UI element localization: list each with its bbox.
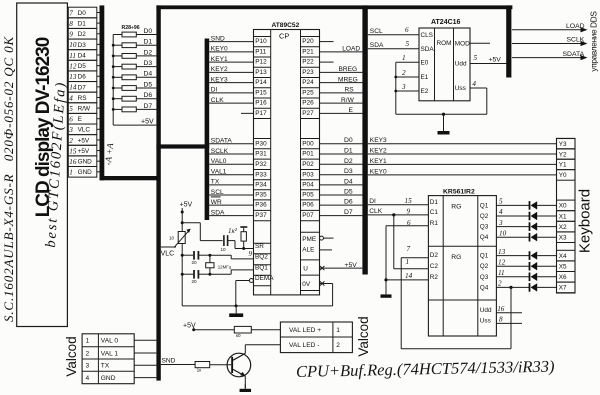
U1 pin P13 cell <box>254 66 271 68</box>
svg-text:P20: P20 <box>302 38 314 45</box>
keyboard pin X6 cell <box>557 272 576 283</box>
svg-text:11: 11 <box>69 52 76 60</box>
wire SDA (bus to P37) <box>209 215 253 217</box>
U1 pin P21 cell <box>301 46 320 48</box>
wire P17 stub <box>241 112 254 114</box>
svg-text:8: 8 <box>69 20 73 28</box>
svg-text:D5: D5 <box>344 189 353 196</box>
svg-text:20: 20 <box>192 279 198 284</box>
svg-text:Udd: Udd <box>480 307 492 314</box>
wire (DDS interface vertical bus) <box>506 5 511 77</box>
wire E2 pin 3 <box>396 90 419 92</box>
svg-text:S.C.1602AULB-X4-GS-R 020Ф-05: S.C.1602AULB-X4-GS-R 020Ф-056-02 QC 0K <box>1 36 16 322</box>
svg-text:D3: D3 <box>78 42 87 49</box>
U1 pin U (Vcc) cell <box>301 259 320 261</box>
wire E (P27 to bus) <box>320 112 363 114</box>
diode VD5 (Q1 to X4) <box>496 255 529 257</box>
svg-text:GND: GND <box>101 375 116 382</box>
svg-text:AT89C52: AT89C52 <box>272 22 300 29</box>
wire D2 pin 7 feedback from Q4 <box>401 257 428 259</box>
junction on pull-up rail row 3 <box>112 65 115 68</box>
diode VD7 (Q3 to X6) <box>496 276 529 278</box>
LCD pin 1 (GND) cell <box>68 167 97 178</box>
wire DI (bus to U3 D1) pin 15 <box>368 204 429 206</box>
svg-text:KEY0: KEY0 <box>211 46 228 53</box>
resistor R26 (pull-up D5) <box>113 87 122 89</box>
svg-text:16: 16 <box>497 305 505 313</box>
svg-text:P35: P35 <box>255 192 267 199</box>
svg-text:SDA: SDA <box>370 42 384 49</box>
svg-text:LOAD: LOAD <box>342 46 360 53</box>
svg-text:P07: P07 <box>302 212 314 219</box>
keyboard pin X0 cell <box>557 200 576 211</box>
svg-text:D5: D5 <box>144 81 153 88</box>
svg-text:D7: D7 <box>144 103 153 110</box>
wire E0-E1-E2 ground rail <box>395 62 397 114</box>
wire SCLK (bus to P31) <box>209 153 253 155</box>
svg-text:Valcod: Valcod <box>356 316 371 356</box>
svg-text:D1: D1 <box>144 39 153 46</box>
svg-text:P17: P17 <box>255 110 267 117</box>
svg-text:D0: D0 <box>78 10 87 17</box>
svg-text:1: 1 <box>406 258 410 266</box>
wire resistor network common rail <box>112 35 114 126</box>
svg-text:D6: D6 <box>78 74 87 81</box>
svg-text:P10: P10 <box>255 38 267 45</box>
svg-text:0V: 0V <box>302 281 311 288</box>
svg-text:12: 12 <box>498 258 506 266</box>
diode VD3 (Q3 to X2) <box>496 226 529 228</box>
svg-text:Y3: Y3 <box>559 141 567 148</box>
keyboard pin X7 cell <box>557 282 576 293</box>
svg-text:GND: GND <box>78 159 93 166</box>
svg-text:KEY1: KEY1 <box>370 158 387 165</box>
svg-text:P30: P30 <box>255 140 267 147</box>
svg-text:SR: SR <box>255 243 264 250</box>
svg-text:D2: D2 <box>78 31 87 38</box>
U1 pin P30 cell <box>254 138 271 140</box>
svg-text:D1: D1 <box>430 199 439 206</box>
svg-text:9: 9 <box>69 31 73 39</box>
reset wire from +5V rail to RC <box>182 222 200 224</box>
svg-text:7: 7 <box>407 245 411 253</box>
U1 pin P10 cell <box>254 36 271 38</box>
svg-text:P31: P31 <box>255 151 267 158</box>
svg-text:VAL 1: VAL 1 <box>101 350 119 357</box>
wire D2 (P02 to bus) <box>320 163 363 165</box>
U1 pin P37 cell <box>254 209 271 211</box>
svg-text:CLK: CLK <box>369 208 382 215</box>
U1 pin P16 cell <box>254 97 271 99</box>
junction on pull-up rail row 2 <box>112 55 115 58</box>
keyboard pin X1 cell <box>557 211 576 222</box>
wire D6 (P06 to bus) <box>320 204 363 206</box>
svg-text:6: 6 <box>69 116 73 124</box>
U1 pin P23 cell <box>301 66 320 68</box>
svg-text:D0: D0 <box>344 137 353 144</box>
svg-text:Y1: Y1 <box>559 162 567 169</box>
svg-text:2: 2 <box>336 342 340 349</box>
svg-text:P06: P06 <box>302 202 314 209</box>
U1 pin P33 cell <box>254 169 271 171</box>
wire R1 pin 6 to ground rail <box>386 225 428 227</box>
svg-text:к0: к0 <box>236 333 241 338</box>
svg-text:P03: P03 <box>302 171 314 178</box>
svg-text:TX: TX <box>211 179 220 186</box>
svg-text:KR561IR2: KR561IR2 <box>443 189 475 196</box>
wire SDA (bus to U2 SDA) pin 5 <box>368 48 419 50</box>
svg-text:10: 10 <box>499 229 507 237</box>
U1 pin P04 cell <box>301 179 320 181</box>
wire MREG (P24 to bus) <box>320 82 363 84</box>
svg-text:VAL LED +: VAL LED + <box>289 327 321 334</box>
wire D7 (P07 to bus) <box>320 215 363 217</box>
svg-text:4: 4 <box>472 80 476 88</box>
wire emitter to ground <box>244 376 246 389</box>
svg-text:Q3: Q3 <box>480 274 489 281</box>
svg-text:BREG: BREG <box>339 66 358 73</box>
svg-text:P02: P02 <box>302 161 314 168</box>
svg-text:P11: P11 <box>255 48 266 55</box>
svg-text:D6: D6 <box>144 92 153 99</box>
svg-text:2: 2 <box>86 350 90 357</box>
svg-text:E2: E2 <box>421 88 429 95</box>
wire P20 stub <box>320 41 334 43</box>
svg-text:5: 5 <box>406 40 410 48</box>
svg-text:SND: SND <box>162 358 176 365</box>
wire (central +5V vertical bus) <box>362 5 367 274</box>
resistor R21 (pull-up D0) <box>113 34 122 36</box>
svg-text:Uss: Uss <box>455 85 466 92</box>
junction CLK to C2 <box>392 213 395 216</box>
svg-text:D4: D4 <box>344 178 353 185</box>
svg-text:R2: R2 <box>430 274 439 281</box>
junction on pull-up rail row 6 <box>112 97 115 100</box>
wire U (Vcc) to +5V bus <box>320 267 363 269</box>
wire CLK (bus to P16) <box>209 102 253 104</box>
svg-text:3: 3 <box>86 363 90 370</box>
resistor R base <box>195 362 210 368</box>
potentiometer R VLC (contrast trimmer) <box>178 232 185 244</box>
svg-text:1: 1 <box>336 327 340 334</box>
U1 pin P32 cell <box>254 158 271 160</box>
svg-text:D7: D7 <box>344 209 353 216</box>
U1 pin P03 cell <box>301 169 320 171</box>
junction on pull-up rail row 5 <box>112 87 115 90</box>
svg-text:KEY2: KEY2 <box>211 66 228 73</box>
svg-text:E: E <box>78 116 82 123</box>
svg-text:P22: P22 <box>302 59 314 66</box>
LCD pin 9 (D2) cell <box>68 28 97 39</box>
wire E0 pin 1 <box>396 61 419 63</box>
resistor R reset 1k <box>241 232 246 241</box>
svg-text:P26: P26 <box>302 100 314 107</box>
wire Valcod pin 1 to bus <box>134 339 156 341</box>
wire 0V to ground rail <box>320 283 333 285</box>
svg-text:Q2: Q2 <box>480 213 489 220</box>
svg-text:P37: P37 <box>255 212 267 219</box>
LCD display module DV-16230 outline <box>17 3 68 327</box>
LCD pin 3 (VLC) cell <box>68 124 97 135</box>
ground (CPU 0V / DEMA) <box>235 306 237 314</box>
svg-text:10: 10 <box>221 247 227 252</box>
svg-text:2: 2 <box>498 280 502 288</box>
wire SDATA to DDS (arrow) <box>512 57 583 59</box>
svg-text:D6: D6 <box>344 199 353 206</box>
svg-text:D7: D7 <box>78 84 87 91</box>
U1 pin BQ1 cell <box>254 264 271 266</box>
U1 pin P20 cell <box>301 36 320 38</box>
svg-text:9: 9 <box>407 207 411 215</box>
U1 pin P00 cell <box>301 138 320 140</box>
wire LOAD to DDS (arrow) <box>512 29 583 31</box>
wire base resistor to transistor <box>210 364 232 366</box>
U1 pin P01 cell <box>301 148 320 150</box>
microcontroller U1 AT89C52 outline <box>254 30 320 295</box>
wire SCL (bus to U2 CLS) pin 6 <box>368 34 419 36</box>
wire U2 MOD stub <box>470 42 490 44</box>
svg-text:16: 16 <box>69 158 77 166</box>
svg-text:13: 13 <box>69 73 77 81</box>
wire LCD pin 5 to GND bus <box>97 107 100 109</box>
svg-text:управление DDS: управление DDS <box>590 11 599 72</box>
keyboard pin Y1 cell <box>557 159 576 170</box>
svg-text:P14: P14 <box>255 79 267 86</box>
wire D3 (P03 to bus) <box>320 174 363 176</box>
wire LCD pin 13 to GND bus <box>97 75 100 77</box>
diode VD2 (Q2 to X1) <box>496 215 529 217</box>
svg-text:3: 3 <box>68 126 73 134</box>
svg-text:KEY2: KEY2 <box>370 148 387 155</box>
svg-text:P01: P01 <box>302 151 314 158</box>
wire U2 Udd pin 5 to +5V (DDS bus) <box>470 63 507 65</box>
keyboard connector outline <box>557 139 576 294</box>
+5V tap (reset resistor) <box>240 226 247 228</box>
svg-text:D3: D3 <box>344 168 353 175</box>
junction Q4 section2 feedback <box>509 286 512 289</box>
svg-text:C1: C1 <box>430 209 439 216</box>
svg-text:5: 5 <box>499 198 503 206</box>
svg-text:RS: RS <box>345 87 355 94</box>
wire KEY2 (bus to P13) <box>209 71 253 73</box>
wire TX (bus to P34) <box>209 184 253 186</box>
svg-text:BQ2: BQ2 <box>255 253 268 260</box>
svg-text:9: 9 <box>249 250 253 258</box>
svg-text:Q1: Q1 <box>480 253 489 260</box>
svg-text:Q4: Q4 <box>480 234 489 241</box>
svg-text:E: E <box>349 107 354 114</box>
wire SND (bus to base resistor) <box>161 364 195 366</box>
U1 pin P22 cell <box>301 56 320 58</box>
LCD pin 7 (D0) cell <box>68 7 97 18</box>
svg-text:Y0: Y0 <box>559 172 567 179</box>
U1 pin P15 cell <box>254 87 271 89</box>
wire SCL (bus to P35) <box>209 194 253 196</box>
capacitor C1 20 (crystal) <box>193 251 195 260</box>
svg-text:D1: D1 <box>344 148 353 155</box>
U1 pin P34 cell <box>254 179 271 181</box>
U1 pin DEMA circle and wire <box>249 279 253 283</box>
svg-text:10: 10 <box>169 236 175 241</box>
keyboard pin X2 cell <box>557 221 576 232</box>
wire E1 pin 2 <box>396 76 419 78</box>
svg-text:4: 4 <box>86 375 90 382</box>
svg-text:X7: X7 <box>559 285 567 292</box>
ground (U2) <box>442 113 445 116</box>
svg-text:KEY3: KEY3 <box>211 76 228 83</box>
LCD pin 8 (D1) cell <box>68 18 97 29</box>
resistor R23 (pull-up D2) <box>113 55 122 57</box>
wire SDATA (bus to P30) <box>209 143 253 145</box>
U1 pin P36 cell <box>254 199 271 201</box>
svg-text:SDATA: SDATA <box>563 51 585 58</box>
svg-text:D5: D5 <box>78 63 87 70</box>
wire KEY0 (bus to keyboard Y0) <box>368 174 557 176</box>
svg-text:AT24C16: AT24C16 <box>431 19 461 26</box>
wire KEY1 (bus to keyboard Y1) <box>368 163 557 165</box>
ground (transistor emitter) <box>244 384 246 389</box>
svg-text:Q1: Q1 <box>480 202 489 209</box>
U1 pin P11 cell <box>254 46 271 48</box>
wire Valcod pin 2 to bus <box>134 352 156 354</box>
U1 pin P14 cell <box>254 77 271 79</box>
VAL LED connector outline <box>280 322 352 353</box>
svg-text:P13: P13 <box>255 69 267 76</box>
svg-text:RS: RS <box>78 95 87 102</box>
svg-text:SCLK: SCLK <box>211 148 229 155</box>
svg-text:5: 5 <box>474 54 478 62</box>
Valcod connector outline <box>82 334 134 384</box>
svg-text:P23: P23 <box>302 69 314 76</box>
wire LCD pin 15 to GND bus <box>97 150 100 152</box>
svg-text:D2: D2 <box>144 49 153 56</box>
svg-text:P36: P36 <box>255 202 267 209</box>
wire BREG (P23 to bus) <box>320 71 363 73</box>
junction on pull-up rail row 1 <box>112 44 115 47</box>
svg-text:+5V: +5V <box>78 148 90 155</box>
svg-text:14: 14 <box>405 272 413 280</box>
LCD pin 4 (RS) cell <box>68 92 97 103</box>
svg-text:P24: P24 <box>302 79 314 86</box>
LCD pin 6 (E) cell <box>68 113 97 124</box>
keyboard pin X5 cell <box>557 261 576 272</box>
wire +5V to LED resistor <box>192 328 195 331</box>
shift register U3 KR561IR2 outline <box>428 196 496 336</box>
wire KEY0 (bus to P11) <box>209 51 253 53</box>
U1 pin P12 cell <box>254 56 271 58</box>
svg-text:Q2: Q2 <box>480 263 489 270</box>
svg-text:2: 2 <box>69 137 73 145</box>
wire (CPU port bus bar) <box>205 39 210 221</box>
wire U3 Udd stub pin 16 <box>496 312 522 314</box>
diode VD6 (Q2 to X5) <box>496 265 529 267</box>
svg-text:VLC: VLC <box>161 250 175 257</box>
resistor R27 (pull-up D6) <box>113 98 122 100</box>
svg-text:P33: P33 <box>255 171 267 178</box>
wire LED resistor to VAL LED + <box>251 329 280 331</box>
svg-text:VLC: VLC <box>78 127 91 134</box>
svg-text:VAL LED -: VAL LED - <box>289 342 319 349</box>
wire LCD pin 10 to GND bus <box>97 43 100 45</box>
svg-text:13: 13 <box>498 248 506 256</box>
svg-text:+5V: +5V <box>78 137 90 144</box>
svg-text:D4: D4 <box>144 71 153 78</box>
wire WR (bus to P36) <box>209 204 253 206</box>
U1 pin PME/ALE cell <box>301 231 320 233</box>
resistor R24 (pull-up D3) <box>113 66 122 68</box>
wire (main left vertical bus) <box>156 5 160 380</box>
U1 pin P35 cell <box>254 189 271 191</box>
svg-text:P15: P15 <box>255 89 267 96</box>
svg-text:P27: P27 <box>302 110 314 117</box>
wire crystal row BQ1 <box>182 273 193 275</box>
diode VD8 (Q4 to X7) <box>496 286 529 288</box>
U1 pin P06 cell <box>301 199 320 201</box>
wire Valcod pin 3 to bus <box>134 364 156 366</box>
wire LCD pin 1 to GND bus <box>97 171 100 173</box>
svg-text:X1: X1 <box>559 213 567 220</box>
svg-text:DI: DI <box>211 87 218 94</box>
wire LCD pin 2 to GND bus <box>97 139 100 141</box>
U1 pin P25 cell <box>301 87 320 89</box>
svg-text:X4: X4 <box>559 253 567 260</box>
wire C2 pin 1 <box>394 268 429 270</box>
svg-text:SCLK: SCLK <box>567 37 585 44</box>
svg-text:3: 3 <box>498 219 503 227</box>
svg-text:Keyboard: Keyboard <box>577 189 594 253</box>
svg-text:D4: D4 <box>78 52 87 59</box>
svg-text:11: 11 <box>498 269 505 277</box>
svg-text:20: 20 <box>192 260 198 265</box>
svg-text:ROM: ROM <box>437 40 452 47</box>
svg-text:X2: X2 <box>559 224 567 231</box>
wire RS (P25 to bus) <box>320 92 363 94</box>
svg-text:BQ1: BQ1 <box>255 264 268 271</box>
wire LCD pin 11 to GND bus <box>97 54 100 56</box>
svg-text:ALE: ALE <box>302 247 314 254</box>
wire +5V rail down to ground rail <box>181 208 183 232</box>
wire R/W (P26 to bus) <box>320 102 363 104</box>
svg-text:P32: P32 <box>255 161 267 168</box>
capacitor C2 20 (crystal) <box>193 270 195 279</box>
svg-text:1: 1 <box>402 54 406 62</box>
Valcod pin 2 (VAL 1) cell <box>82 346 134 348</box>
crystal BQ 12MHz <box>209 255 211 263</box>
wire DI (bus to P15) <box>209 92 253 94</box>
wire R2 pin 14 <box>384 278 387 281</box>
svg-text:R28÷96: R28÷96 <box>122 25 140 31</box>
svg-text:D0: D0 <box>144 28 153 35</box>
U1 pin P07 cell <box>301 209 320 211</box>
svg-text:1: 1 <box>69 169 73 177</box>
svg-text:SDATA: SDATA <box>211 138 233 145</box>
svg-text:CLS: CLS <box>421 32 433 39</box>
svg-text:VAL1: VAL1 <box>211 169 227 176</box>
svg-text:Q3: Q3 <box>480 224 489 231</box>
U1 pin P27 cell <box>301 107 320 109</box>
resistor R28 (pull-up D7) <box>113 108 122 110</box>
resistor R25 (pull-up D4) <box>113 76 122 78</box>
wire LCD pin 8 to GND bus <box>97 22 100 24</box>
svg-text:E1: E1 <box>421 74 429 81</box>
wire KEY2 (bus to keyboard Y2) <box>368 153 557 155</box>
wire Valcod pin 4 to bus <box>134 377 156 379</box>
svg-text:P12: P12 <box>255 59 267 66</box>
Valcod pin 4 (GND) cell <box>82 370 134 372</box>
wire (thick link bar between LCD bus and main bus) <box>100 176 157 180</box>
svg-text:PME: PME <box>302 236 316 243</box>
svg-text:5: 5 <box>69 105 73 113</box>
